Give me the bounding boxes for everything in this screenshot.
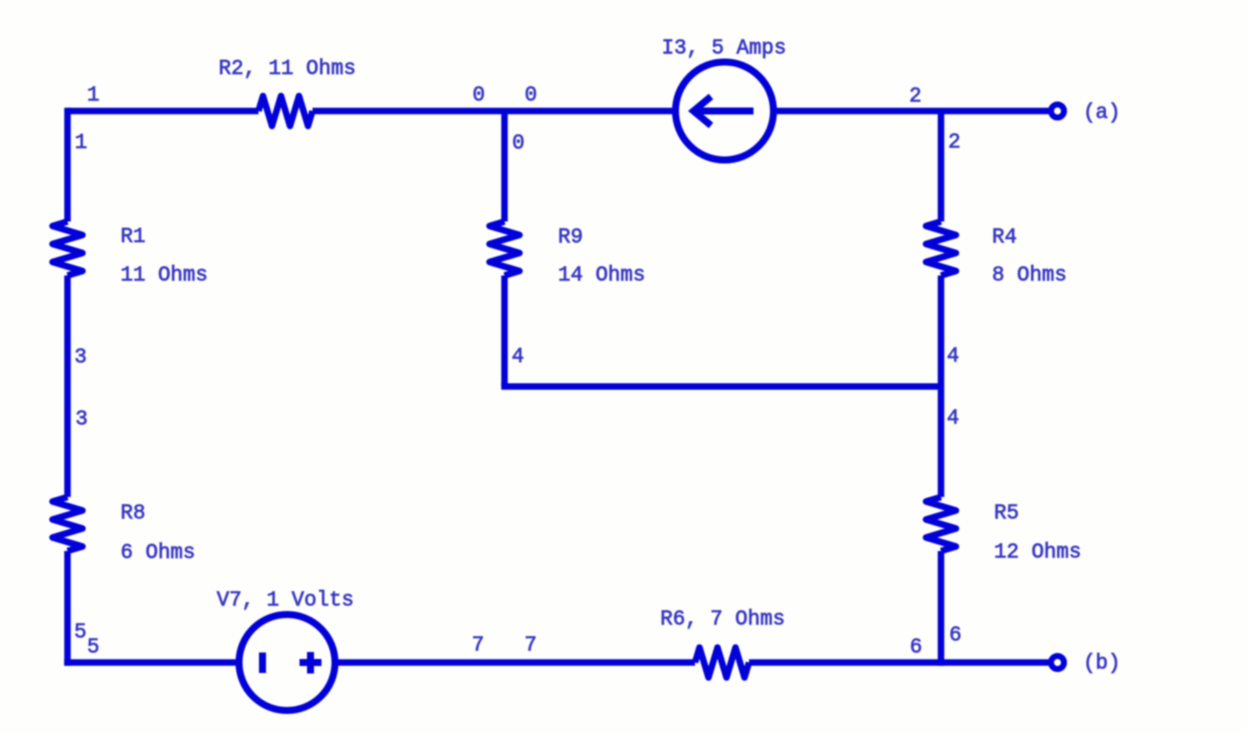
wire node4 horizontal (501, 383, 941, 390)
resistor R5 (926, 497, 956, 551)
svg-text:5: 5 (87, 636, 99, 659)
svg-text:3: 3 (75, 409, 87, 432)
resistor R4 (926, 222, 956, 276)
svg-text:(a): (a) (1083, 102, 1120, 125)
svg-text:4: 4 (947, 408, 959, 431)
wire top-left horizontal (node 1 to R2) (68, 108, 259, 115)
wire R6 to node 6 and terminal b (749, 659, 1049, 666)
svg-text:V7, 1 Volts: V7, 1 Volts (217, 590, 354, 613)
svg-text:4: 4 (512, 346, 524, 369)
svg-text:6: 6 (910, 637, 922, 660)
svg-text:R6, 7 Ohms: R6, 7 Ohms (660, 608, 785, 631)
svg-text:0: 0 (512, 133, 524, 156)
svg-text:1: 1 (75, 132, 87, 155)
wire middle vertical node0 to R9 (501, 111, 508, 222)
svg-text:R1: R1 (121, 226, 146, 249)
wire R5 to node 6 (938, 551, 945, 666)
svg-text:5: 5 (74, 622, 86, 645)
svg-text:6 Ohms: 6 Ohms (121, 542, 196, 565)
terminal (a) (1051, 105, 1064, 118)
svg-text:R4: R4 (992, 227, 1017, 250)
svg-text:2: 2 (948, 132, 960, 155)
svg-text:0: 0 (525, 85, 537, 108)
svg-text:11 Ohms: 11 Ohms (121, 264, 208, 287)
svg-text:(b): (b) (1083, 653, 1120, 676)
voltage source V7 (239, 615, 335, 711)
wire V7 to R6 (335, 659, 695, 666)
wire R1 to R8 (64, 276, 71, 498)
svg-text:7: 7 (472, 635, 484, 658)
wire I3 to node 2 and terminal a (774, 108, 1049, 115)
resistor R8 (53, 497, 83, 551)
svg-text:8 Ohms: 8 Ohms (992, 264, 1067, 287)
svg-text:2: 2 (909, 85, 921, 108)
svg-text:R9: R9 (558, 227, 583, 250)
svg-text:3: 3 (74, 346, 86, 369)
current source I3 (676, 62, 774, 160)
svg-text:1: 1 (87, 85, 99, 108)
wire bottom left node5 to V7 (64, 659, 239, 666)
wire left vertical node1 to R1 (64, 108, 71, 222)
svg-text:7: 7 (524, 635, 536, 658)
resistor R6 (695, 648, 749, 678)
svg-text:0: 0 (473, 85, 485, 108)
svg-text:R5: R5 (994, 503, 1019, 526)
resistor R9 (490, 222, 520, 276)
resistor R2 (259, 96, 313, 126)
svg-text:R2, 11 Ohms: R2, 11 Ohms (219, 58, 356, 81)
wire R2 to I3 (313, 108, 676, 115)
svg-text:R8: R8 (121, 503, 146, 526)
svg-text:I3, 5 Amps: I3, 5 Amps (662, 38, 787, 61)
svg-text:12 Ohms: 12 Ohms (994, 542, 1081, 565)
terminal (b) (1051, 656, 1064, 669)
resistor R1 (53, 222, 83, 276)
svg-text:6: 6 (949, 625, 961, 648)
wire R4 to R5 (938, 276, 945, 498)
wire right vertical node2 to R4 (938, 111, 945, 222)
wire R9 to node 4 corner (501, 276, 508, 387)
wire R8 to node 5 (64, 551, 71, 666)
svg-text:14 Ohms: 14 Ohms (558, 264, 645, 287)
svg-text:4: 4 (947, 346, 959, 369)
